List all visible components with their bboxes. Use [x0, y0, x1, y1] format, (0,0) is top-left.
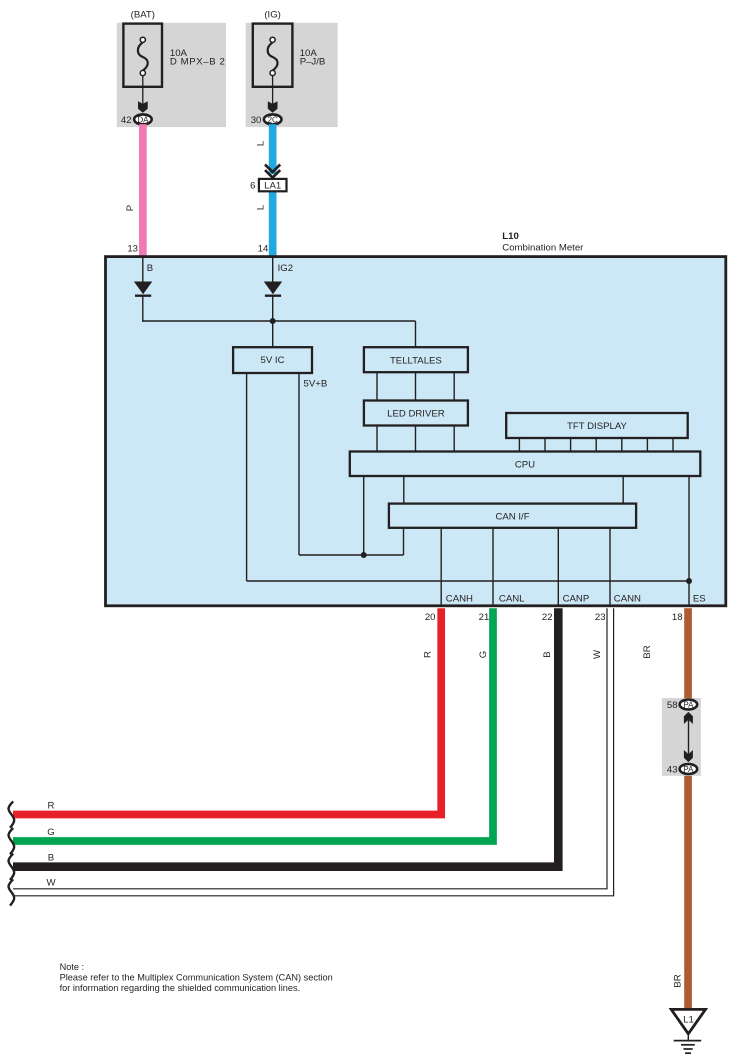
squiggle end of G wire	[9, 828, 15, 854]
svg-text:CANL: CANL	[499, 594, 525, 605]
svg-text:IG2: IG2	[278, 263, 293, 274]
wire CPU to CAN I/F right	[622, 476, 624, 504]
squiggle end of R wire	[9, 802, 15, 828]
wire bus to 5V IC	[272, 321, 274, 348]
5V+B horizontal net	[299, 554, 404, 556]
wire pin13 to diode D1	[142, 256, 144, 282]
arrowhead into DA	[138, 101, 148, 113]
wire CPU to CAN I/F left	[403, 476, 405, 504]
wire CANL green	[13, 608, 493, 841]
fuse symbol element	[138, 42, 148, 70]
ES horizontal net	[247, 580, 689, 582]
svg-text:G: G	[478, 651, 489, 658]
ground L1 triangle	[671, 1009, 705, 1033]
wire pin14 to diode D2	[272, 256, 274, 282]
wires LED DRIVER to CPU	[376, 426, 378, 452]
wire 5V IC left output to ES net	[246, 373, 248, 581]
wire diode D2 down to bus	[272, 296, 274, 322]
svg-text:(IG): (IG)	[264, 10, 281, 21]
wire CAN I/F to pin 22 CANP	[557, 528, 559, 605]
wire CANN white double line inner	[13, 608, 607, 889]
wire L (blue) from LA1 to pin 14	[269, 191, 277, 256]
svg-text:2C: 2C	[268, 115, 278, 124]
connector 6 LA1	[259, 179, 287, 191]
wire CANN white double line outer	[13, 608, 614, 896]
svg-text:LED DRIVER: LED DRIVER	[387, 409, 445, 420]
fuse P-J/B rectangle	[253, 24, 293, 87]
arrow down to 43 PA	[684, 750, 693, 762]
svg-text:B: B	[147, 263, 153, 274]
block TFT DISPLAY	[506, 413, 688, 438]
svg-text:P: P	[125, 205, 136, 211]
arrowhead into 2C	[268, 101, 278, 113]
svg-text:TFT DISPLAY: TFT DISPLAY	[567, 421, 627, 432]
connector block PA background	[662, 698, 701, 776]
svg-text:DA: DA	[137, 115, 149, 124]
svg-text:ES: ES	[693, 594, 706, 605]
svg-text:TELLTALES: TELLTALES	[390, 355, 442, 366]
svg-text:43: 43	[667, 765, 678, 776]
wire CANP black	[13, 608, 558, 867]
wire P (pink) from DA to pin 13	[139, 124, 147, 256]
svg-text:14: 14	[258, 244, 269, 255]
wire CAN I/F to pin 20 CANH	[440, 528, 442, 605]
wire bus to TELLTALES	[415, 321, 417, 348]
junction dot ES	[686, 578, 692, 584]
svg-text:23: 23	[595, 612, 606, 623]
svg-text:CANP: CANP	[563, 594, 590, 605]
svg-text:PA: PA	[683, 765, 694, 774]
power bus horizontal wire	[142, 320, 415, 322]
svg-text:R: R	[423, 651, 434, 658]
wire ES brown upper	[684, 608, 692, 699]
svg-text:13: 13	[127, 244, 138, 255]
svg-text:B: B	[542, 651, 553, 657]
svg-text:(BAT): (BAT)	[131, 10, 155, 21]
wire ES brown lower	[684, 775, 692, 1010]
svg-text:L1: L1	[683, 1015, 694, 1026]
svg-text:18: 18	[672, 612, 683, 623]
svg-text:G: G	[47, 827, 54, 838]
svg-text:Combination Meter: Combination Meter	[502, 242, 584, 253]
svg-text:PA: PA	[683, 700, 694, 709]
svg-text:B: B	[48, 853, 54, 864]
combination meter box L10	[106, 257, 726, 606]
fuse block BAT (junction block background)	[117, 23, 226, 127]
svg-text:for information regarding the: for information regarding the shielded c…	[60, 983, 301, 993]
svg-text:CAN I/F: CAN I/F	[495, 511, 529, 522]
fuse block IG background	[246, 23, 338, 127]
diode D2	[264, 282, 282, 295]
fuse D MPX-B 2 rectangle	[123, 24, 162, 87]
svg-text:W: W	[592, 649, 603, 659]
connector 42 DA	[134, 114, 152, 124]
svg-text:L: L	[256, 140, 267, 146]
connector 58 PA	[680, 700, 698, 710]
svg-text:P–J/B: P–J/B	[300, 57, 326, 68]
squiggle end of W wire	[9, 879, 15, 905]
wire CAN I/F to 5V+B net	[403, 528, 405, 555]
wire CPU to 5V+B net	[363, 476, 365, 555]
block 5V IC	[233, 347, 312, 373]
wire CANH red	[13, 608, 441, 814]
wire 5V IC right output 5V+B	[298, 373, 300, 555]
ground hatch lines	[674, 1040, 702, 1042]
svg-text:BR: BR	[673, 974, 684, 987]
wire CPU to ES pin	[688, 476, 690, 605]
svg-text:W: W	[46, 877, 56, 888]
svg-text:58: 58	[667, 700, 678, 711]
svg-text:LA1: LA1	[264, 181, 281, 192]
svg-text:CPU: CPU	[515, 459, 535, 470]
svg-text:D MPX–B 2: D MPX–B 2	[170, 57, 226, 68]
diode D1	[134, 282, 152, 295]
arrow line between PA connectors	[688, 720, 690, 755]
arrow up to 58 PA	[684, 712, 693, 724]
svg-text:Please refer to the Multiplex: Please refer to the Multiplex Communicat…	[60, 973, 333, 983]
svg-text:BR: BR	[642, 645, 653, 658]
svg-text:Note :: Note :	[60, 962, 85, 972]
svg-text:42: 42	[121, 115, 132, 126]
block LED DRIVER	[364, 401, 468, 426]
junction dot 5V+B	[361, 552, 367, 558]
connector 30 2C	[264, 114, 282, 124]
chevron junction arrows above LA1	[265, 165, 280, 173]
svg-text:30: 30	[251, 115, 262, 126]
fuse symbol element	[268, 42, 278, 70]
svg-text:21: 21	[479, 612, 490, 623]
svg-text:6: 6	[250, 181, 255, 192]
svg-text:20: 20	[425, 612, 436, 623]
block CPU	[350, 452, 701, 477]
connector 43 PA	[680, 764, 698, 774]
wires TELLTALES to LED DRIVER	[376, 372, 378, 400]
svg-text:5V+B: 5V+B	[304, 378, 328, 389]
wire fuse to connector 2C	[272, 76, 274, 108]
svg-text:L: L	[256, 204, 267, 210]
wire fuse to connector DA	[142, 76, 144, 108]
wires TFT DISPLAY to CPU	[518, 438, 520, 452]
svg-text:L10: L10	[502, 231, 519, 242]
svg-text:22: 22	[542, 612, 553, 623]
svg-text:5V IC: 5V IC	[261, 355, 285, 366]
wire CAN I/F to pin 21 CANL	[492, 528, 494, 605]
svg-text:R: R	[48, 800, 55, 811]
wire diode D1 down to bus	[142, 296, 144, 322]
squiggle end of B wire	[9, 854, 15, 880]
junction dot	[270, 318, 276, 324]
svg-text:CANN: CANN	[614, 594, 641, 605]
wire CAN I/F to pin 23 CANN	[609, 528, 611, 605]
svg-text:CANH: CANH	[446, 594, 473, 605]
wire L (blue) from 2C to LA1	[269, 124, 277, 174]
block CAN I/F	[389, 504, 636, 528]
ground stem	[687, 1034, 689, 1041]
block TELLTALES	[364, 347, 468, 372]
